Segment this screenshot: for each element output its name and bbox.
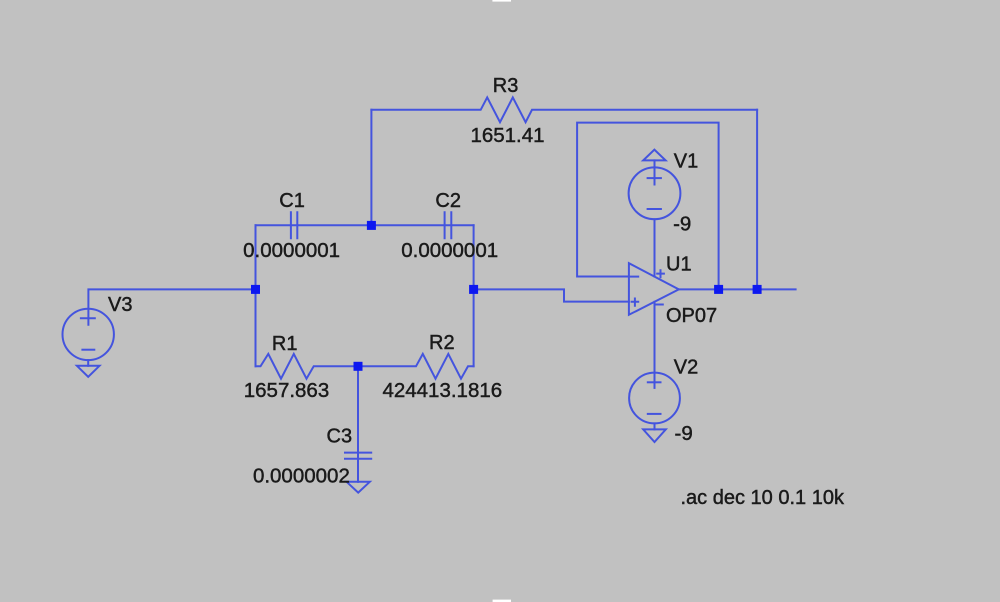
wire V1 to op-amp top supply [654, 219, 656, 276]
wire R3 left vertical [370, 110, 372, 226]
voltage source V3 [62, 309, 113, 360]
op-amp minus supply marker [656, 304, 663, 306]
wire capacitor row [256, 224, 474, 226]
wire op-amp output [679, 288, 796, 290]
voltage source V1 [629, 167, 681, 219]
svg-text:1657.863: 1657.863 [244, 379, 330, 402]
svg-text:U1: U1 [666, 253, 692, 275]
node B junction [469, 285, 478, 294]
svg-text:OP07: OP07 [666, 305, 717, 327]
svg-text:R1: R1 [272, 333, 298, 355]
svg-text:V3: V3 [108, 294, 132, 316]
node bottom junction [354, 362, 363, 371]
svg-text:R3: R3 [493, 75, 519, 97]
svg-text:R2: R2 [429, 332, 455, 354]
ground below C3 [347, 482, 370, 493]
ground below V3 [77, 366, 100, 377]
wire right vertical [473, 225, 475, 366]
svg-text:0.0000002: 0.0000002 [253, 464, 350, 487]
wire C3 vertical [357, 366, 359, 482]
wire V1 top stub [654, 160, 656, 184]
capacitor C2 [445, 212, 452, 238]
node output junction 1 [714, 285, 723, 294]
wire V3 top to node A [88, 289, 255, 324]
voltage source V2 [629, 373, 680, 424]
capacitor C3 [345, 453, 371, 459]
svg-text:V2: V2 [674, 357, 698, 379]
wire node B to op-amp plus input [474, 289, 629, 301]
svg-text:V1: V1 [674, 151, 698, 173]
top scrollbar tick [492, 0, 511, 2]
wire left vertical [255, 225, 257, 366]
wire op-amp bottom supply to V2 [654, 302, 656, 388]
resistor R2 [358, 354, 474, 379]
ground below V2 [643, 429, 666, 442]
op-amp plus input marker [632, 299, 639, 306]
node top junction [367, 221, 376, 230]
wire V2 bottom stub [654, 423, 656, 429]
supply arrow above V1 [643, 150, 665, 161]
svg-text:1651.41: 1651.41 [470, 124, 544, 147]
svg-text:C1: C1 [279, 190, 305, 212]
svg-text:0.0000001: 0.0000001 [401, 239, 498, 262]
node output junction 2 [753, 285, 762, 294]
wire V3 bottom stub [87, 360, 89, 366]
svg-text:424413.1816: 424413.1816 [382, 379, 502, 402]
resistor R1 [256, 354, 359, 379]
svg-text:-9: -9 [673, 213, 691, 236]
svg-text:C2: C2 [435, 190, 461, 212]
wire feedback loop to op-amp minus input [577, 123, 719, 290]
wire R3 right vertical [756, 110, 758, 290]
resistor R3 [371, 97, 757, 122]
svg-text:-9: -9 [675, 422, 693, 445]
svg-text:.ac dec 10 0.1 10k: .ac dec 10 0.1 10k [681, 487, 845, 509]
bottom scrollbar tick [493, 600, 511, 602]
op-amp plus supply marker [657, 270, 664, 277]
svg-text:0.0000001: 0.0000001 [243, 239, 340, 262]
capacitor C1 [291, 212, 297, 238]
op-amp U1 triangle [629, 263, 679, 315]
node A junction [251, 285, 260, 294]
svg-text:C3: C3 [327, 426, 353, 448]
op-amp minus input marker [631, 276, 638, 278]
